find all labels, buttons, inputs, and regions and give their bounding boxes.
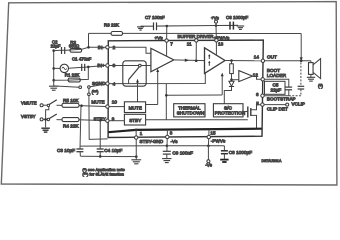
svg-text:6: 6 [256,92,259,97]
capacitor C2 22uF [62,47,65,54]
MUTE block [124,102,145,113]
op-amp U1B power [205,48,226,74]
pin 13 [215,39,218,42]
svg-text:CLIP DET: CLIP DET [267,106,288,111]
resistor R4 22K [62,118,79,122]
bus to pin8 [166,130,168,137]
STBY block [124,114,145,125]
pin 7 [165,39,168,42]
resistor (internal, output divider) [231,61,233,64]
ground (speaker) [307,77,315,81]
svg-text:VMUTE: VMUTE [21,101,37,106]
wire op-amp2 output to pin14 [225,60,261,62]
wire R1 row [54,67,89,80]
svg-text:C4 10µF: C4 10µF [104,148,122,153]
svg-text:VCLIP: VCLIP [292,102,306,107]
node source junction [52,67,55,70]
pin 10 MUTE [106,105,109,108]
wire IN- to op-amp1 [109,47,151,53]
node C3 tap [80,104,83,107]
node output junction [230,59,233,62]
svg-text:-PWVs: -PWVs [211,139,226,144]
wire IN+ to op-amp1 [109,65,151,67]
wire C3/C4 ground run [81,155,137,157]
ground (C7 left) [137,27,144,30]
mute arrow into op-amp2 [221,76,223,95]
ground (switches) [41,128,49,132]
svg-text:5: 5 [256,101,259,106]
svg-text:8: 8 [170,131,173,136]
ground (input) [49,86,58,90]
svg-text:D97AU801A: D97AU801A [262,159,283,163]
op-amp U1A buffer [151,48,174,72]
wire pin10 to MUTE block [109,106,124,108]
wire SGND row with jumper [54,86,79,87]
wire pin8 down [166,139,168,152]
ground (C9) [162,159,171,163]
mute switch box [123,61,146,86]
capacitor C4 10uF [99,120,101,148]
switch contact [139,64,142,67]
svg-text:MUTE: MUTE [91,99,104,104]
svg-text:C3 10µF: C3 10µF [57,148,75,153]
capacitor C1 470nF [82,64,85,71]
capacitor C5 22uF [264,79,288,87]
ground (C8) [220,160,228,162]
svg-text:PROTECTION: PROTECTION [215,111,246,116]
C5 box label [265,81,286,94]
svg-text:R4 22K: R4 22K [63,124,80,129]
wire -Vs run [80,145,224,147]
wire pin9 to STBY block [109,120,124,122]
wire pin5 VCLIP [264,104,286,106]
pin 12 BOOT LOADER [261,78,264,81]
resistor R5 10K [62,103,79,107]
internal ground bus (thick) [108,129,261,133]
wire pin11 vertical [195,42,197,61]
svg-text:22µF: 22µF [51,43,61,48]
svg-text:SHUTDOWN: SHUTDOWN [177,111,204,116]
node IN+ / R1 junction [87,66,90,69]
resistor R1 22K [68,78,80,82]
svg-text:IN+: IN+ [97,63,105,68]
resistor R2 680ohm [70,48,82,52]
pin 14 OUT [261,59,264,62]
mute arrow into op-amp1 [157,71,159,104]
wire op-amp1 out to op-amp2 [174,59,205,62]
input ground bus (left) [53,51,55,86]
svg-text:C9 100nF: C9 100nF [172,151,193,156]
svg-text:+Vs: +Vs [155,35,164,40]
svg-text:R3 22K: R3 22K [104,23,119,28]
IC U1 outline [108,40,263,137]
border frame [1,2,337,185]
capacitor C6 1000uF [230,22,233,30]
wire SGND into IC [109,73,205,83]
svg-text:VSTBY: VSTBY [21,114,36,119]
svg-text:-Vs: -Vs [171,139,179,144]
wire: pin7 supply vertical [166,26,168,41]
pin 9 STBY [106,119,109,122]
wire OUT to speaker [265,60,311,62]
pin 11 [195,39,198,42]
pin 15 -PWVs [207,135,210,138]
wire: feedback rail (R3 net) [89,32,112,34]
pin 1 STBY-GND [135,136,138,139]
sgnd tap down through bus to stby line [165,84,167,121]
node C2 junction [52,49,55,52]
wire pin7 to op-amp1 [166,42,168,56]
svg-text:STBY-GND: STBY-GND [140,139,164,144]
svg-text:STBY: STBY [129,118,141,123]
bus to pin1 [135,129,138,132]
node +Vs junction 1 [166,25,169,28]
pin 5 CLIP DET [261,103,264,106]
capacitor C7 100nF [154,22,157,30]
svg-text:14: 14 [254,54,260,59]
ground (C6 right) [237,26,245,29]
node C4 tap [99,119,102,122]
switch common ground [46,107,49,127]
svg-text:1: 1 [140,131,143,136]
pin 4 SGND [106,82,109,85]
optional capacitor (dashed) [300,62,302,86]
S/C PROTECTION block [213,104,243,117]
op-amp U1C boot driver [239,71,253,82]
ground (pin1) [131,160,141,164]
wire IN- row [54,47,106,50]
svg-text:(**) for SLAVE function: (**) for SLAVE function [82,171,124,176]
wire pin1 to ground [135,139,137,159]
svg-text:10: 10 [112,100,118,105]
svg-text:22µF: 22µF [271,87,282,92]
svg-text:SGND: SGND [92,81,106,86]
svg-text:MUTE: MUTE [129,105,142,110]
wire pin6 bootstrap [264,95,289,97]
svg-text:R5 10K: R5 10K [63,98,80,103]
wire mute control bus [146,104,158,106]
svg-text:R1 22K: R1 22K [65,73,80,78]
+Vs terminal [215,23,217,25]
pin 8 -Vs [166,135,169,138]
signal source V1 [60,64,68,72]
arrowhead feedback into OUT [300,57,303,60]
svg-text:-Vs: -Vs [205,162,212,167]
svg-text:12: 12 [253,72,259,77]
pin 2 IN- [106,46,109,49]
svg-text:C7 100nF: C7 100nF [145,15,165,20]
capacitor C3 10uF [80,106,81,149]
node R1 junction [52,79,55,82]
wire pin15 down [207,139,209,146]
pin 3 IN+ [106,64,109,67]
svg-text:13: 13 [218,42,224,47]
svg-text:C8 1000µF: C8 1000µF [229,150,252,155]
svg-text:11: 11 [187,42,192,47]
svg-text:(**): (**) [92,90,99,95]
speaker SPK [309,63,314,75]
node +Vs junction 2 [215,24,218,27]
input arrows inside op-amp2 [208,55,210,59]
svg-text:(*): (*) [318,83,323,88]
svg-text:IN-: IN- [98,45,105,50]
svg-text:C6 1000µF: C6 1000µF [226,15,249,20]
node IN- / R3 junction [87,46,90,49]
svg-text:15: 15 [210,130,216,135]
bus to pin15 [208,129,210,137]
node pin11 junction [195,59,198,62]
svg-text:OUT: OUT [267,54,277,59]
-Vs terminal [207,146,209,160]
capacitor C8 1000uF [223,146,225,151]
wire pin13 into op-amp2 [215,42,217,55]
wire IN+ row [54,66,106,69]
signal arrowhead [185,59,189,62]
svg-text:+Vs: +Vs [211,15,220,20]
strap to ground (**) [88,88,90,93]
switch control arrow [137,80,139,102]
resistor R3 22K [111,32,122,36]
pin 6 BOOTSTRAP [261,94,264,97]
wire: pin13 supply vertical [215,26,217,41]
diode (internal) [229,81,234,86]
svg-text:7: 7 [170,42,173,47]
svg-text:680Ω: 680Ω [69,44,79,49]
capacitor C9 100nF [163,151,171,154]
wire: +Vs supply rail [141,25,154,27]
wire STBY control [146,119,248,121]
svg-text:LOADER: LOADER [267,73,287,78]
switch lever [129,67,140,80]
svg-text:C1 470nF: C1 470nF [72,57,92,62]
transistor Q1 clip detector [243,111,248,113]
THERMAL SHUTDOWN block [174,104,205,117]
